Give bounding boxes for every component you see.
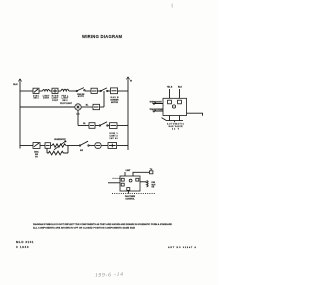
wire <box>117 125 128 127</box>
wire <box>117 145 128 147</box>
svg-text:24 V: 24 V <box>172 128 180 131</box>
wire lamp drop <box>77 110 79 125</box>
wire <box>100 106 105 108</box>
wire dashed common <box>112 193 155 195</box>
wire <box>81 106 93 108</box>
rheostat R1 <box>52 138 67 150</box>
wire <box>69 90 76 92</box>
terminal box B4 <box>93 104 100 109</box>
svg-text:BLK: BLK <box>13 84 18 86</box>
fuse box B9 <box>45 143 51 149</box>
svg-text:HUMIDISTAT: HUMIDISTAT <box>54 138 66 141</box>
wire bottom leads <box>162 116 184 123</box>
svg-text:MOTOR: MOTOR <box>111 102 119 104</box>
wire <box>95 125 99 127</box>
wire rung4 segment a <box>20 145 33 147</box>
svg-text:SW: SW <box>80 150 83 152</box>
wire <box>101 145 108 147</box>
lamp LT1 <box>75 104 81 116</box>
wire top leads <box>125 172 150 176</box>
wire <box>97 90 100 92</box>
wire <box>118 90 129 92</box>
wire pin lead <box>169 89 171 99</box>
svg-text:THERMOSTAT: THERMOSTAT <box>150 101 163 104</box>
wire thermostat lead <box>150 101 164 105</box>
wire riser <box>67 146 69 154</box>
label fan timer <box>125 195 136 200</box>
switch S3 <box>100 88 108 92</box>
svg-text:MLD 3101: MLD 3101 <box>16 240 34 244</box>
svg-text:ALL COMPONENTS ARE SHOWN IN OF: ALL COMPONENTS ARE SHOWN IN OFF OR CLOSE… <box>33 226 136 229</box>
svg-text:CONT: CONT <box>43 98 50 100</box>
wire <box>40 145 45 147</box>
label automatic gas valve <box>167 123 185 131</box>
disconnect switch S5 <box>33 143 40 159</box>
wire transformer lead <box>150 108 165 112</box>
wire <box>66 145 79 147</box>
terminal TH <box>150 169 153 174</box>
svg-text:AUTO: AUTO <box>78 95 85 98</box>
node L2 (WHT supply) <box>127 77 132 83</box>
svg-text:CONTROL: CONTROL <box>125 198 135 200</box>
wire right lead <box>187 113 203 116</box>
wire rung1 segment a <box>20 90 33 92</box>
fan control U2 <box>120 176 140 191</box>
wire <box>108 125 109 127</box>
svg-text:WIRING DIAGRAM: WIRING DIAGRAM <box>82 34 123 39</box>
resistor R2 lower <box>47 151 68 155</box>
heater coil H1 <box>140 181 156 189</box>
control box B1 <box>52 88 59 102</box>
svg-text:YEL B: YEL B <box>167 87 173 89</box>
wire pin lead <box>179 89 181 99</box>
wire <box>85 90 91 92</box>
switch S4 <box>99 122 108 126</box>
terminal box B8 <box>89 123 95 129</box>
switch S2 <box>76 88 85 98</box>
wire right rail <box>127 83 129 150</box>
wire left rail <box>19 85 21 149</box>
lamp box B3 <box>111 88 120 104</box>
wire <box>51 145 53 147</box>
disconnect switch S1 <box>33 88 40 99</box>
wire junction drop <box>103 91 105 107</box>
svg-text:SW 1: SW 1 <box>34 98 39 100</box>
svg-text:CONT: CONT <box>52 100 59 102</box>
svg-text:BLK: BLK <box>178 87 183 89</box>
wire <box>50 90 52 92</box>
wire <box>89 145 95 147</box>
wire lower branch <box>46 148 48 153</box>
wire bottom stub <box>127 191 129 194</box>
wire rung2 <box>20 106 75 108</box>
wire left leads <box>113 177 121 179</box>
wire <box>108 90 111 92</box>
switch S6 <box>79 141 89 152</box>
fan motor box B7 <box>108 143 117 149</box>
svg-text:24V 60: 24V 60 <box>110 137 118 140</box>
svg-text:DIAGRAM SYMBOLS DO NOT REFLECT: DIAGRAM SYMBOLS DO NOT REFLECT THE COMPO… <box>33 223 172 226</box>
wire <box>39 90 43 92</box>
svg-text:W: W <box>130 81 132 83</box>
relay coil box B2 <box>91 88 97 93</box>
svg-text:ART NO 02847 A: ART NO 02847 A <box>168 246 196 249</box>
svg-text:SW 2: SW 2 <box>62 100 67 102</box>
thermostat element T1 <box>61 89 69 102</box>
svg-text:TRANSFORMER: TRANSFORMER <box>150 108 165 111</box>
overload heater OL <box>43 89 51 99</box>
wire <box>58 90 61 92</box>
terminal box B6 <box>95 143 101 149</box>
svg-text:PILOT LIGHT: PILOT LIGHT <box>60 103 73 105</box>
humidifier box B5 <box>110 123 118 140</box>
page mark top right <box>172 4 173 8</box>
node L1 (BLK supply) <box>13 79 21 86</box>
svg-text:3 1940: 3 1940 <box>16 245 29 249</box>
svg-text:199-6 -14: 199-6 -14 <box>95 272 123 279</box>
wire rung3 <box>78 125 89 127</box>
relay U1 <box>163 98 187 115</box>
